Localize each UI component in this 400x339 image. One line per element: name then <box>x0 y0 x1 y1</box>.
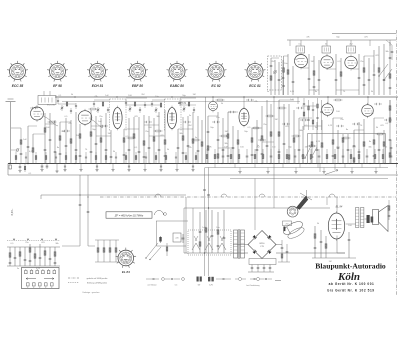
part above bus left <box>185 152 187 164</box>
svg-text:EBF 80: EBF 80 <box>132 84 143 88</box>
below-bus parts right <box>215 163 380 173</box>
component chain x=338 (IF/AF mid) <box>337 130 340 164</box>
component chain x=60 <box>59 122 62 164</box>
right section line 2 <box>230 178 388 180</box>
component above bus <box>206 149 208 164</box>
output labels <box>317 223 353 263</box>
component chain x=275 (IF top) <box>273 60 277 95</box>
vibrator cone dark <box>297 197 309 210</box>
tube T1 osc <box>295 53 308 70</box>
component chain x=238 (IF/AF mid) <box>237 130 239 164</box>
bus tie left end <box>7 164 9 176</box>
component chain x=289 (IF/AF mid) <box>288 104 290 164</box>
part above bus left <box>105 152 107 164</box>
tube socket diagram EF 98 <box>47 61 68 82</box>
series capacitor horizontal <box>246 99 254 101</box>
component chain x=336 (IF top) <box>335 54 338 95</box>
component chain x=139 <box>138 117 141 164</box>
component chain x=129 <box>128 118 131 164</box>
fuse row bottom <box>197 277 282 282</box>
svg-text:0,5: 0,5 <box>175 285 178 287</box>
svg-text:EC 92: EC 92 <box>211 84 220 88</box>
component chain x=193 <box>192 112 194 164</box>
component chain x=218 (IF/AF mid) <box>217 112 220 164</box>
svg-text:ab Gerät Nr. K 100 001: ab Gerät Nr. K 100 001 <box>329 282 375 286</box>
component chain x=315 (output) <box>314 226 317 258</box>
series capacitor horizontal <box>282 123 290 125</box>
HT rail second <box>62 101 300 103</box>
tube socket diagram ECH 81 <box>87 61 108 82</box>
component chain x=326 (output) <box>325 236 327 258</box>
tube socket diagram ECC 85 <box>7 61 28 82</box>
series capacitor horizontal <box>374 103 382 105</box>
part above bus left <box>115 152 117 164</box>
component chain x=40 (lower left) <box>39 244 42 266</box>
component chain x=71 <box>70 120 72 164</box>
lower-left labels <box>11 242 60 270</box>
series capacitor horizontal <box>100 125 108 127</box>
component above bus <box>342 149 345 164</box>
part above bus left <box>125 152 127 164</box>
component chain x=333 (IF/AF mid) <box>332 118 335 164</box>
component chain x=50 <box>49 113 52 164</box>
vibrator top wires <box>300 190 312 200</box>
series resistor horizontal <box>154 130 163 132</box>
tube V6 circle <box>362 103 374 118</box>
component chain x=303 (IF/AF mid) <box>302 126 305 164</box>
component chain x=144 <box>143 115 146 164</box>
IF can box 2 <box>322 46 331 53</box>
svg-text:0,1: 0,1 <box>29 173 32 175</box>
part above bus left <box>35 152 37 164</box>
speaker <box>373 206 389 232</box>
component chain x=91 <box>90 110 93 164</box>
HT rail junction dots <box>74 96 368 97</box>
part above bus left <box>15 152 17 164</box>
component chain x=96 <box>95 116 98 164</box>
series capacitor horizontal <box>183 121 191 123</box>
component chain x=223 (IF/AF mid) <box>222 118 225 164</box>
svg-text:am Vibrator: am Vibrator <box>147 284 157 287</box>
component chain x=279 (IF top) <box>278 62 281 95</box>
component chain x=50 (lower left) <box>49 247 52 266</box>
component chain x=224 (power) <box>223 210 226 253</box>
component chain x=252 (IF/AF mid) <box>251 128 254 164</box>
mid-lower cluster <box>95 240 119 262</box>
component chain x=359 (IF top) <box>358 54 361 95</box>
series capacitor horizontal <box>258 139 266 141</box>
legend dash sample 2 <box>68 282 79 284</box>
component above bus <box>310 149 312 164</box>
component chain x=55 <box>54 120 57 164</box>
tube V4 envelope <box>167 106 176 131</box>
series resistor horizontal <box>220 135 229 137</box>
output bottom rail <box>312 257 356 259</box>
small triode circle EABC <box>209 100 218 113</box>
series capacitor horizontal <box>212 121 220 123</box>
component chain x=10 (lower left) <box>9 247 12 266</box>
svg-text:ECC 85: ECC 85 <box>47 105 55 107</box>
component chain x=322 (IF/AF mid) <box>321 120 323 164</box>
series resistor horizontal <box>127 137 136 139</box>
component above bus <box>270 149 273 164</box>
series capacitor horizontal <box>300 119 308 121</box>
component chain x=188 <box>187 116 190 164</box>
component above bus <box>350 149 352 164</box>
component chain x=390 (IF/AF mid) <box>389 100 392 164</box>
part above bus left <box>155 152 157 164</box>
component chain x=279 (IF/AF mid) <box>278 100 281 164</box>
series resistor horizontal <box>342 137 351 139</box>
feedthrough capacitor hump <box>259 194 265 197</box>
component chain x=314 (IF top) <box>313 56 316 95</box>
part above bus left <box>175 152 177 164</box>
antenna <box>6 99 16 164</box>
dark caps mid-low <box>159 234 184 243</box>
wire from dome <box>156 221 188 246</box>
part above bus left <box>95 152 97 164</box>
connector pins row 1 <box>25 269 56 274</box>
component chain x=165 <box>164 110 167 164</box>
long vertical feeds <box>203 97 368 276</box>
svg-text:1M: 1M <box>311 61 314 63</box>
svg-text:Blaupunkt-Autoradio: Blaupunkt-Autoradio <box>315 261 386 270</box>
vertical feed left of power <box>184 197 345 253</box>
component chain x=283 (IF top) <box>282 60 285 95</box>
part above bus left <box>65 152 67 164</box>
component chain x=293 (IF top) <box>292 66 295 95</box>
svg-text:bei Zündstörung: bei Zündstörung <box>247 284 260 287</box>
choke dark windings <box>367 215 374 223</box>
IF can box 3 <box>347 46 356 53</box>
output tube EL84 envelope <box>328 211 344 241</box>
component chain x=379 (IF top) <box>378 46 380 95</box>
component above bus <box>254 149 256 164</box>
feedthrough capacitor hump <box>329 194 335 197</box>
component chain x=283.5 (IF top) <box>282 56 285 95</box>
secondary bus <box>8 174 398 176</box>
svg-text:ZF = 460 kHz+10,7MHz: ZF = 460 kHz+10,7MHz <box>114 214 144 218</box>
IF can box 1 <box>296 46 305 53</box>
vibrator socket circle <box>287 206 298 217</box>
connector pins row 2 <box>27 283 54 288</box>
top right labels <box>267 51 390 93</box>
component above bus <box>222 149 225 164</box>
heater line lower-left <box>41 194 186 196</box>
vibrator contact box dotted <box>188 230 231 255</box>
IF can dashed enclosure 1 <box>110 99 127 131</box>
right mid link wires <box>208 100 384 148</box>
component chain x=348 (IF/AF mid) <box>347 134 350 164</box>
cluster left of V5 <box>302 98 323 130</box>
component chain x=134 <box>133 117 135 164</box>
svg-text:1M: 1M <box>275 119 278 121</box>
part above bus left <box>195 152 197 164</box>
component chain x=183 <box>182 117 185 164</box>
upper band micro labels <box>59 94 196 118</box>
svg-text:EABC 80: EABC 80 <box>170 84 184 88</box>
component above bus <box>246 149 249 164</box>
svg-text:Stellung auf MW-punkte: Stellung auf MW-punkte <box>87 282 107 285</box>
part above bus left <box>165 152 167 164</box>
component chain x=271 (IF/AF mid) <box>270 104 272 164</box>
below-bus stubs across left band <box>63 164 194 172</box>
series resistor horizontal <box>48 121 57 123</box>
component chain x=206 (power) <box>205 210 207 253</box>
component above bus <box>214 149 216 164</box>
top right link wires <box>271 56 374 90</box>
part above bus left <box>85 152 87 164</box>
tube V3 ECH81 envelope <box>113 106 122 131</box>
component chain x=267 (IF/AF mid) <box>266 100 269 164</box>
component chain x=228 (IF/AF mid) <box>227 112 230 164</box>
component chain x=374 (IF/AF mid) <box>373 118 376 164</box>
series capacitor horizontal <box>352 123 360 125</box>
component chain x=369 (IF top) <box>368 58 371 95</box>
component chain x=178 <box>177 129 180 164</box>
component chain x=28 <box>27 126 30 164</box>
part above bus left <box>145 152 147 164</box>
component chain x=364 (IF/AF mid) <box>363 119 365 164</box>
tube socket diagram EABC 80 <box>167 61 188 82</box>
component chain x=124 <box>123 129 126 164</box>
tone switch diagonals <box>304 144 338 175</box>
component chain x=208 (IF/AF mid) <box>207 116 210 164</box>
series resistor horizontal <box>192 139 201 141</box>
upper band small components (left tuner area) <box>57 98 195 114</box>
component chain x=349 (output) <box>348 232 351 258</box>
series resistor horizontal <box>278 107 287 109</box>
series resistor horizontal <box>266 115 275 117</box>
part above bus left <box>135 152 137 164</box>
component chain x=200 (power) <box>199 212 202 253</box>
series capacitor horizontal <box>144 121 152 123</box>
component chain x=271 (IF top) <box>270 58 273 95</box>
right edge components <box>386 40 393 220</box>
component chain x=317 (IF/AF mid) <box>316 122 319 164</box>
part above bus left <box>55 152 57 164</box>
below-bus components left <box>9 163 386 175</box>
component chain x=284 (IF/AF mid) <box>283 104 286 164</box>
component chain x=35 (lower left) <box>34 247 36 266</box>
component chain x=384 (IF top) <box>383 44 386 95</box>
part above bus left <box>25 152 27 164</box>
tube socket diagram EC 92 <box>206 61 227 82</box>
component chain x=106 <box>105 113 108 164</box>
svg-text:EF 98: EF 98 <box>53 84 62 88</box>
component above bus <box>366 149 369 164</box>
component above bus <box>302 149 304 164</box>
heater drop wires <box>62 175 95 246</box>
component chain x=76 <box>75 112 78 164</box>
component chain x=45 (lower left) <box>44 247 46 266</box>
svg-text:6,3V~: 6,3V~ <box>11 208 14 215</box>
row labels above bus <box>208 147 388 149</box>
labels under fuse row <box>198 284 260 287</box>
component above bus <box>278 149 280 164</box>
top rail upper segment <box>332 33 396 35</box>
series capacitor horizontal <box>228 111 236 113</box>
connector panel box <box>22 268 60 289</box>
AM-FM switch diagonals top right <box>374 64 392 81</box>
component chain x=364 (IF top) <box>363 56 366 95</box>
component chain x=384 (IF/AF mid) <box>383 130 385 164</box>
transformer windings <box>234 229 245 259</box>
component chain x=149 <box>148 116 151 164</box>
svg-text:1M: 1M <box>108 133 111 135</box>
component above bus <box>374 149 376 164</box>
component above bus <box>318 149 321 164</box>
svg-text:ECC 85: ECC 85 <box>12 84 24 88</box>
component chain x=288 (IF top) <box>287 54 289 95</box>
left section link wires <box>28 122 193 136</box>
component chain x=154 <box>153 118 155 164</box>
left mid labels <box>23 127 198 153</box>
power labels <box>202 227 220 229</box>
component above bus <box>326 149 328 164</box>
component above bus <box>230 149 232 164</box>
bottom row left extension <box>146 278 184 287</box>
tube T2 <box>321 54 333 70</box>
component above bus <box>286 149 288 164</box>
component chain x=257 (IF/AF mid) <box>256 120 259 164</box>
switch diagonals lower <box>145 243 167 260</box>
component chain x=321 (output) <box>320 230 323 258</box>
labels above IF cans <box>299 37 369 46</box>
output wires <box>327 197 367 253</box>
component chain x=111 <box>110 130 113 164</box>
drop wires from top rail <box>290 40 390 46</box>
small value box power <box>283 221 292 226</box>
legend dash sample 1 <box>68 277 79 279</box>
coupling curve 2 <box>90 119 103 128</box>
series capacitor horizontal <box>62 130 70 132</box>
component chain x=341 (IF top) <box>340 58 342 95</box>
tone unit box outline <box>308 134 386 164</box>
series capacitor horizontal <box>384 119 392 121</box>
series resistor horizontal <box>216 99 225 101</box>
series resistor horizontal <box>308 145 317 147</box>
extra micro labels band <box>39 117 385 147</box>
svg-text:ECH 81: ECH 81 <box>92 84 104 88</box>
series resistor horizontal <box>89 108 98 110</box>
component chain x=218 (power) <box>217 212 220 253</box>
part above bus left <box>45 152 47 164</box>
component chain x=202 <box>201 120 203 164</box>
coil box near V1 <box>38 96 56 105</box>
component chain x=66 <box>65 118 68 164</box>
component chain x=299 (IF/AF mid) <box>298 118 301 164</box>
svg-text:ECC 81: ECC 81 <box>249 84 261 88</box>
ground bus <box>8 163 398 165</box>
component chain x=80 <box>79 124 82 164</box>
component chain x=262 (IF/AF mid) <box>261 106 264 164</box>
component chain x=15 (lower left) <box>14 247 17 266</box>
svg-text:1M: 1M <box>193 94 196 96</box>
lower-left rail top dotted with arrows <box>7 240 60 242</box>
part above bus left <box>75 152 77 164</box>
dial lamp dome <box>155 211 164 216</box>
component chain x=101 <box>100 118 102 164</box>
IF can dashed enclosure 2 <box>165 99 182 131</box>
svg-text:1M: 1M <box>225 131 228 133</box>
tube T3 <box>345 55 357 71</box>
component chain x=390 (IF top) <box>389 42 392 95</box>
component above bus <box>382 149 384 164</box>
bridge rectifier B250C75 <box>248 231 276 259</box>
mixer tube oval <box>239 107 249 128</box>
right section line 1 <box>205 167 388 169</box>
component above bus <box>390 149 393 164</box>
component chain x=379 (IF/AF mid) <box>378 134 381 164</box>
svg-text:bis Gerät Nr. K 102 519: bis Gerät Nr. K 102 519 <box>327 289 374 293</box>
chassis dash-dot line <box>100 196 396 198</box>
vibrator contacts <box>192 236 226 250</box>
electrolytic tilted can <box>282 219 306 240</box>
dark bar <box>283 227 285 232</box>
svg-text:Farbsign. - gesehen: Farbsign. - gesehen <box>83 291 100 294</box>
small box 220 <box>173 233 181 242</box>
series resistor horizontal <box>292 135 301 137</box>
tube socket diagram ECC 81 <box>245 61 266 82</box>
component chain x=359 (IF/AF mid) <box>358 122 361 164</box>
component chain x=45 <box>44 113 47 164</box>
component above bus <box>294 149 297 164</box>
component chain x=25 (lower left) <box>24 247 27 266</box>
series capacitor horizontal <box>30 107 38 109</box>
output transformer <box>356 208 364 228</box>
component chain x=319 (IF top) <box>318 60 321 95</box>
component chain x=198 <box>197 116 200 164</box>
component chain x=20 (lower left) <box>19 247 21 266</box>
component chain x=354 (IF/AF mid) <box>353 130 356 164</box>
component above bus <box>334 149 336 164</box>
tube V5 circle <box>322 102 334 117</box>
svg-text:EL 84: EL 84 <box>336 205 343 209</box>
tube socket diagram EBF 80 <box>127 61 148 82</box>
series resistor horizontal <box>376 133 385 135</box>
component above bus <box>262 149 264 164</box>
right edge dash-dot boundary <box>396 30 398 296</box>
series capacitor horizontal <box>296 107 304 109</box>
chains right of bridge <box>278 240 290 262</box>
component chain x=159 <box>158 112 161 164</box>
component chain x=55 (lower left) <box>54 247 57 266</box>
component chain x=312 (IF/AF mid) <box>311 134 314 164</box>
svg-text:EL 84: EL 84 <box>122 270 130 274</box>
HT rail top <box>55 96 398 98</box>
oscillator dashed can <box>268 56 282 90</box>
component chain x=33 <box>32 134 34 164</box>
input circuit wires <box>11 128 22 164</box>
component chain x=233 (IF/AF mid) <box>232 126 235 164</box>
series capacitor horizontal <box>336 125 344 127</box>
top rail right <box>287 39 396 41</box>
feedthrough capacitor hump <box>221 194 227 197</box>
component chain x=374 (IF top) <box>373 50 376 95</box>
tube V1 triode <box>31 105 44 122</box>
under-bridge box <box>249 259 276 265</box>
svg-text:gedreht auf UKW-punkte: gedreht auf UKW-punkte <box>87 277 108 280</box>
component chain x=294 (IF/AF mid) <box>293 110 295 164</box>
connector arrows <box>26 278 54 280</box>
ZF frequency box <box>106 212 152 218</box>
tube V2 triode <box>78 109 92 126</box>
component above bus <box>238 149 240 164</box>
component above bus <box>358 149 360 164</box>
component chain x=309 (IF top) <box>308 54 311 95</box>
lower-left rail bottom <box>7 265 60 267</box>
